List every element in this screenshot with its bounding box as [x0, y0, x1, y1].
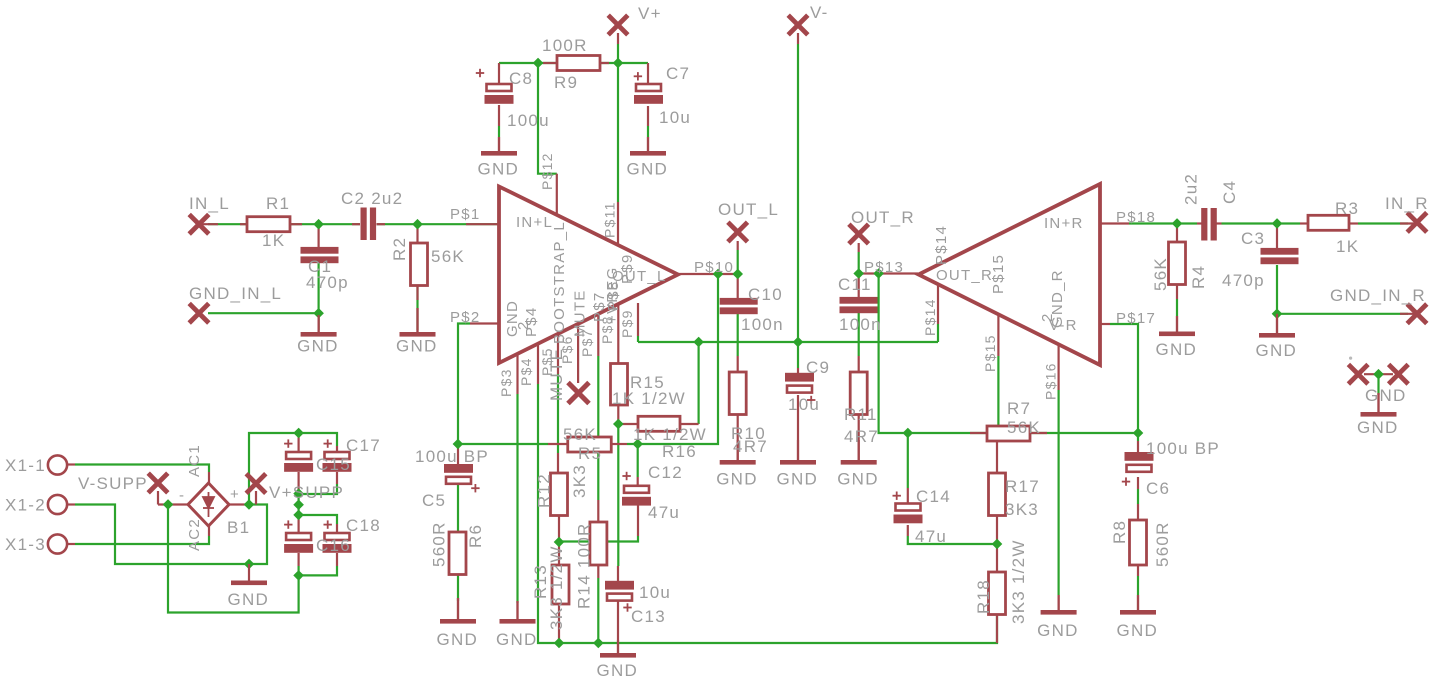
svg-text:56K: 56K [431, 247, 465, 266]
resistor R16 [638, 416, 680, 431]
capacitor C16 [286, 533, 311, 540]
svg-text:GND: GND [297, 337, 339, 356]
pin cap low-right upper lead [336, 524, 338, 533]
svg-text:560R: 560R [430, 521, 449, 567]
ground under C13 [617, 640, 619, 653]
svg-text:100u: 100u [507, 111, 550, 130]
wire cap top-right lower lead [299, 484, 337, 494]
svg-text:IN_L: IN_L [189, 194, 230, 213]
resistor R15 [611, 364, 628, 406]
pin P$1 stub [466, 223, 499, 225]
wire X1-3 to bridge AC2 [75, 536, 209, 544]
junction node R12/R13 [554, 537, 563, 546]
wire C14 upper lead [907, 433, 909, 488]
pin C7 gnd lead1 [647, 106, 649, 126]
svg-text:C18: C18 [346, 516, 381, 535]
junction node GND pair [1374, 370, 1383, 379]
wire P$12 drop [538, 63, 557, 174]
wire C4 to R3 [1222, 222, 1301, 224]
pin OUT_R X stub [858, 243, 860, 252]
capacitor C14 [896, 504, 921, 511]
svg-text:C11: C11 [838, 275, 872, 294]
capacitor C2 [361, 208, 377, 241]
junction node cap bank mid1 [294, 489, 303, 498]
svg-text:P$1: P$1 [450, 206, 480, 223]
resistor R17 [989, 473, 1006, 516]
svg-text:P$4: P$4 [518, 357, 534, 386]
svg-text:GND_IN_L: GND_IN_L [189, 284, 282, 303]
op-amp IC1A left channel [499, 187, 678, 364]
svg-text:R7: R7 [1007, 399, 1031, 418]
junction node OUT_R rail [874, 269, 883, 278]
pin R2 to gnd [416, 308, 418, 332]
pin cap top-left upper lead [298, 433, 300, 452]
svg-text:OUT_L: OUT_L [612, 268, 667, 285]
svg-text:P$14: P$14 [933, 225, 950, 265]
pin cap low-right lower lead [336, 553, 338, 566]
svg-text:R4: R4 [1189, 265, 1208, 289]
capacitor C10 [720, 298, 758, 314]
pin cap top-left lower lead [298, 472, 300, 494]
resistor R12 [551, 473, 568, 516]
wire R3 to IN_R [1358, 222, 1408, 224]
svg-text:100n: 100n [839, 315, 882, 334]
resistor R3 [1308, 215, 1349, 230]
svg-text:1K: 1K [262, 231, 285, 250]
wire P$3 drop [516, 394, 518, 603]
port IN_L [189, 214, 209, 234]
junction node C14/R17/R18 [992, 539, 1001, 548]
port OUT_L [728, 222, 748, 242]
pin P$11 stub [617, 202, 619, 245]
svg-text:C8: C8 [509, 69, 533, 88]
svg-text:R6: R6 [466, 524, 485, 548]
svg-text:X1-2: X1-2 [5, 496, 46, 515]
pin P$5 stub [557, 333, 559, 374]
pin C13 gnd lead [617, 599, 619, 653]
svg-text:10u: 10u [639, 583, 671, 602]
svg-text:GND: GND [777, 470, 819, 489]
svg-text:OUT_R: OUT_R [851, 208, 915, 227]
junction node cap bank mid2 [294, 500, 303, 509]
wire C11 to R11 [858, 312, 860, 356]
pin V-SUPP X stub [157, 491, 159, 505]
connector X1-3 [48, 534, 67, 553]
svg-text:R5: R5 [578, 444, 602, 463]
svg-text:V+: V+ [638, 4, 662, 23]
wire C2 to P$1 [377, 223, 500, 225]
svg-text:100n: 100n [741, 315, 784, 334]
capacitor C17 [325, 452, 350, 459]
pin R7 left lead [970, 432, 987, 434]
svg-text:C2 2u2: C2 2u2 [341, 189, 403, 208]
resistor R11 [850, 372, 867, 415]
svg-text:P$3: P$3 [498, 368, 514, 397]
pin C5 upper lead [457, 444, 459, 465]
wire OUT_R feedback drop [879, 274, 1138, 434]
pin C1 upper lead [318, 224, 320, 247]
bridge rectifier B1 [188, 483, 229, 526]
svg-text:P$13: P$13 [864, 259, 904, 276]
junction node supply GND [244, 559, 253, 568]
wire R5 to OUT_L rail [627, 274, 718, 444]
wire OUT_L X drop [737, 250, 739, 274]
pin P$6 mute stub [577, 323, 579, 383]
svg-text:R11: R11 [844, 405, 878, 424]
svg-text:P$11: P$11 [602, 201, 618, 238]
svg-text:X1-1: X1-1 [5, 456, 46, 475]
pin C12 lower lead [637, 504, 639, 536]
pin cap top-right lower lead [336, 472, 338, 484]
svg-text:MUTE: MUTE [572, 290, 589, 338]
ground under C8 [498, 137, 500, 151]
pin R5 right lead [611, 443, 627, 445]
junction node P$2/C5/R5 [453, 439, 462, 448]
wire C5 to R6 [457, 481, 459, 532]
wire GND_IN_L net [208, 312, 319, 314]
junction node C2/R2/P$1 [413, 220, 422, 229]
pin bridge plus lead [228, 503, 249, 505]
resistor R10 [729, 372, 746, 415]
stray dot [1349, 357, 1352, 360]
ground under C3 [1276, 314, 1278, 333]
pin C9 gnd lead [797, 395, 799, 460]
svg-text:C12: C12 [648, 463, 683, 482]
pin IN_L stub [199, 223, 218, 225]
wire R16 right to V- rail [697, 342, 699, 424]
svg-text:3K3 1/2W: 3K3 1/2W [1009, 539, 1028, 624]
svg-text:47u: 47u [915, 527, 947, 546]
pin GND pair gnd lead [1377, 393, 1379, 412]
svg-text:GND: GND [597, 661, 639, 680]
capacitor C18 [325, 533, 350, 540]
pin C1 gnd lead [318, 315, 320, 332]
junction node bridge minus [163, 500, 172, 509]
pin C11 upper lead [858, 274, 860, 298]
svg-text:BOOTSTRAP_L: BOOTSTRAP_L [551, 221, 568, 344]
wire P$2 net [458, 324, 470, 445]
pin OUT_R apex wire [859, 272, 918, 274]
pin cap low-left upper lead [298, 515, 300, 533]
ground GND pair [1377, 393, 1379, 412]
pin P$7 stub [597, 308, 599, 356]
svg-text:R1: R1 [266, 194, 290, 213]
wire P$8 node drop [617, 424, 619, 566]
pin C9 upper lead [797, 368, 799, 373]
svg-text:IN+R: IN+R [1044, 215, 1084, 232]
pin C10 upper lead [737, 274, 739, 298]
port V+SUPP [246, 474, 266, 494]
pin R18 upper lead [996, 544, 998, 572]
svg-text:GND: GND [1156, 340, 1198, 359]
svg-text:100u BP: 100u BP [1146, 439, 1220, 458]
pin P$16 stub [1057, 344, 1059, 390]
junction node R15/R16 [614, 419, 623, 428]
svg-text:P$8: P$8 [605, 281, 622, 311]
pin R8 gnd lead [1137, 595, 1139, 610]
ground under P$3 [516, 601, 518, 619]
wire R12-R13 node rail [559, 536, 638, 542]
svg-text:C5: C5 [422, 491, 446, 510]
pin R4 lower lead [1176, 285, 1178, 299]
junction node OUT_L/C10 [733, 269, 742, 278]
pin C14 lower lead [907, 525, 909, 536]
svg-text:C6: C6 [1146, 479, 1170, 498]
wire P$15 drop [997, 356, 999, 426]
pin cap top-right upper lead [336, 446, 338, 452]
pin C4 left lead [1197, 222, 1202, 224]
pin R4 gnd lead [1176, 316, 1178, 332]
svg-text:R9: R9 [554, 73, 578, 92]
junction node bridge plus [244, 500, 253, 509]
pin R17 lower lead [996, 515, 998, 544]
ground supply [248, 564, 250, 581]
svg-text:10u: 10u [659, 108, 691, 127]
op-amp IC1B right channel [919, 184, 1101, 365]
pin P$17 stub [1100, 323, 1110, 325]
wire C3 lower lead [1276, 265, 1278, 314]
svg-text:P$12: P$12 [539, 152, 555, 190]
svg-text:C7: C7 [666, 64, 690, 83]
wire C6 to R8 dash [1137, 489, 1139, 504]
pin R8 upper lead [1137, 504, 1139, 520]
pin R14 lower lead [597, 565, 599, 578]
svg-text:R3: R3 [1335, 199, 1359, 218]
svg-text:C13: C13 [631, 607, 666, 626]
wire cap center column [298, 494, 300, 515]
capacitor C7 [636, 84, 661, 91]
wire V- loop [168, 505, 299, 613]
pin P$18 stub [1100, 222, 1129, 224]
wire C14 lower to R17 node [908, 536, 997, 544]
junction node cap bank mid3 [294, 510, 303, 519]
svg-text:C14: C14 [916, 487, 951, 506]
pin R1 right lead [290, 223, 302, 225]
capacitor C5 [444, 464, 473, 473]
resistor R18 [989, 572, 1006, 615]
wire P$16 drop [1057, 390, 1059, 595]
svg-text:470p: 470p [306, 273, 349, 292]
pin R2 gnd lead [416, 286, 418, 300]
junction node R16/V- rail [694, 337, 703, 346]
svg-text:C15: C15 [316, 455, 351, 474]
pin C2 left lead [352, 223, 360, 225]
svg-text:C17: C17 [346, 436, 381, 455]
junction node V-/C9 [793, 337, 802, 346]
pin P$2 stub [470, 322, 499, 324]
pin R14 upper lead [597, 500, 599, 522]
svg-text:560R: 560R [1153, 521, 1172, 567]
pin C11 to R11 [858, 356, 860, 372]
pin R1 left lead [240, 223, 247, 225]
pin P$12 stub [556, 174, 558, 215]
pin C3 gnd lead [1276, 314, 1278, 333]
pin C7 upper lead [647, 63, 649, 84]
ground under C1 [318, 315, 320, 332]
resistor R9 [557, 56, 600, 71]
svg-text:P$16: P$16 [1043, 362, 1059, 400]
pin V+SUPP X stub [255, 491, 257, 505]
svg-text:P$15: P$15 [990, 254, 1007, 294]
pin R9 left lead [543, 62, 557, 64]
pin X1-3 stub [67, 543, 75, 545]
junction node C3/GND_IN_R [1272, 309, 1281, 318]
wire V+ rail [499, 62, 648, 64]
svg-text:P$18: P$18 [1116, 209, 1156, 226]
wire X1-1 to bridge AC1 [75, 465, 209, 473]
resistor R4 [1169, 242, 1186, 285]
pin C14 plus lead [907, 488, 909, 503]
svg-text:GND: GND [716, 470, 758, 489]
svg-text:C10: C10 [748, 285, 783, 304]
wire P$14 drop [937, 324, 939, 342]
wire C1 lower lead [318, 263, 320, 330]
svg-text:B1: B1 [227, 518, 250, 537]
svg-text:P$4: P$4 [523, 307, 540, 337]
resistor R14 [590, 522, 607, 565]
ground under R2 [416, 308, 418, 332]
pin R12 upper lead [557, 453, 559, 473]
svg-text:56K: 56K [563, 425, 597, 444]
ground under R4 [1176, 316, 1178, 332]
svg-text:P$10: P$10 [694, 259, 734, 276]
svg-text:IN+L: IN+L [516, 214, 553, 231]
pin C10 to R10 [737, 356, 739, 372]
wire R2 lower lead [416, 286, 418, 330]
pin R13 lower lead [558, 604, 560, 643]
resistor R6 [449, 532, 466, 575]
svg-text:1K 1/2W: 1K 1/2W [612, 389, 686, 408]
junction node GND_IN_L/C1 [314, 309, 323, 318]
wire bottom mute rail [538, 384, 997, 643]
pin P$4 stub [537, 343, 539, 384]
resistor R5 [568, 437, 612, 452]
svg-text:GND: GND [837, 470, 879, 489]
svg-text:4R7: 4R7 [844, 427, 879, 446]
pin R8 lower lead [1137, 565, 1139, 576]
junction node C4/C3/R3 [1272, 219, 1281, 228]
svg-text:10u: 10u [788, 395, 820, 414]
pin GND_IN_R stub [1400, 313, 1417, 315]
svg-text:R16: R16 [662, 442, 697, 461]
pin C4 right lead [1216, 222, 1222, 224]
port GND_IN_L [189, 303, 209, 323]
pin R9 right lead [600, 62, 609, 64]
svg-text:OUT_R: OUT_R [936, 267, 993, 284]
pin C6 upper lead [1137, 441, 1139, 453]
svg-text:R18: R18 [974, 579, 993, 614]
svg-text:GND: GND [1037, 621, 1079, 640]
pin P$8 stub [617, 303, 619, 364]
svg-text:C4: C4 [1220, 180, 1239, 204]
ground under C7 [647, 137, 649, 151]
svg-text:AC1: AC1 [186, 444, 203, 477]
svg-text:-: - [179, 487, 185, 504]
port V- [788, 15, 808, 35]
wire cap lower-right upper lead [299, 515, 337, 524]
wire C8 gnd dash [498, 126, 500, 137]
svg-text:GND: GND [1117, 621, 1159, 640]
resistor R2 [411, 243, 428, 286]
junction node R1/C1/C2 [314, 220, 323, 229]
pin R5 left lead [548, 443, 568, 445]
svg-text:GND: GND [478, 160, 520, 179]
pin P$3 stub [516, 353, 518, 394]
pin P$3 gnd lead [516, 601, 518, 619]
svg-text:470p: 470p [1222, 271, 1265, 290]
connector X1-2 [48, 495, 67, 514]
pin OUT_L X stub [737, 241, 739, 250]
svg-text:+: + [230, 486, 240, 503]
pin C8 gnd lead1 [498, 105, 500, 126]
wire P$9 drop [637, 336, 639, 342]
capacitor C12 [624, 486, 649, 493]
junction node C12/feedback [633, 439, 642, 448]
svg-text:P$2: P$2 [450, 309, 480, 326]
svg-text:GND: GND [496, 630, 538, 649]
pin GND pair crossbar [1364, 373, 1393, 375]
pin R16 left lead [618, 423, 638, 425]
wire left feedback rail [458, 443, 548, 445]
svg-text:AC2: AC2 [186, 518, 203, 551]
pin OUT_L apex wire [678, 273, 738, 275]
junction node OUT_R/C11 [854, 269, 863, 278]
pin R7 right lead [1030, 432, 1047, 434]
pin C12 plus lead [637, 477, 639, 487]
pin C7 gnd lead2 [647, 137, 649, 151]
svg-text:P$14: P$14 [922, 298, 938, 336]
pin R10 gnd lead [737, 415, 739, 461]
pin R16 right lead [680, 423, 699, 425]
pin R3 right lead [1349, 222, 1358, 224]
pin cap low-left lower lead [298, 553, 300, 566]
svg-text:GND: GND [504, 300, 521, 337]
capacitor C6 [1125, 452, 1154, 461]
svg-text:P$17: P$17 [1116, 310, 1156, 327]
pin V- X stub [797, 33, 799, 44]
pin R15 lower lead [617, 405, 619, 424]
svg-text:3K3: 3K3 [570, 464, 589, 498]
pin C8 upper lead [498, 63, 500, 84]
port GND_IN_R [1407, 304, 1427, 324]
wire IN_L net [208, 223, 247, 225]
svg-text:GND_IN_R: GND_IN_R [1330, 286, 1426, 305]
svg-text:V+SUPP: V+SUPP [269, 483, 344, 502]
junction node cap bank bottom [294, 571, 303, 580]
capacitor C9 [785, 373, 814, 382]
pin R11 gnd lead [858, 415, 860, 461]
pin P$14 stub [937, 285, 939, 324]
svg-text:GND: GND [627, 160, 669, 179]
svg-text:GND: GND [396, 337, 438, 356]
capacitor C13 [605, 581, 634, 590]
wire P$17 net [1110, 324, 1138, 441]
wire R4 lower dash [1176, 299, 1178, 316]
wire cap lower-right to minus [299, 566, 337, 575]
svg-text:GND: GND [228, 590, 270, 609]
wire center tap loop [249, 505, 267, 565]
svg-text:P$9: P$9 [619, 309, 635, 338]
junction node cap bank top [294, 428, 303, 437]
wire P$18 net [1129, 222, 1197, 224]
ground under R11 [858, 440, 860, 460]
capacitor C11 [840, 297, 878, 313]
capacitor C3 [1261, 248, 1299, 264]
connector X1-1 [48, 455, 67, 474]
svg-text:GND: GND [437, 630, 479, 649]
port GND-B [1389, 364, 1409, 384]
resistor R13 [552, 565, 569, 604]
